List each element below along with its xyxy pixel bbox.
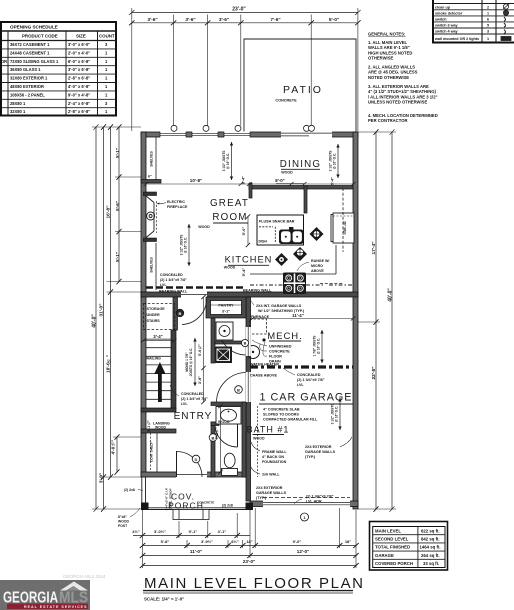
svg-text:PATIO: PATIO <box>283 84 323 96</box>
garage door opening <box>263 500 350 507</box>
svg-text:9'-0": 9'-0" <box>293 539 302 544</box>
porch posts <box>141 503 149 511</box>
svg-text:3'-9½": 3'-9½" <box>201 539 213 544</box>
dining dim 8'-0" <box>275 178 304 184</box>
dim 5'-1" / 5'-6" / 5'-1" left inner <box>115 124 122 284</box>
svg-text:(2) 1 3/4"x9 7/8": (2) 1 3/4"x9 7/8" <box>160 278 187 282</box>
extension lines bottom <box>143 508 357 568</box>
dim 3'-4" stairs <box>141 334 177 343</box>
svg-text:3'-8": 3'-8" <box>198 376 202 384</box>
svg-text:5'-0⅝": 5'-0⅝" <box>198 344 202 356</box>
svg-text:MICRO: MICRO <box>311 264 323 268</box>
svg-text:842 sq ft.: 842 sq ft. <box>421 537 440 542</box>
entry dim line <box>218 404 222 474</box>
kitchen bearing dashed <box>250 284 283 286</box>
mech door arc <box>219 328 247 356</box>
svg-text:GEORGIA MLS 2024: GEORGIA MLS 2024 <box>63 574 106 579</box>
dim row 1 bottom <box>132 529 250 538</box>
electric fireplace <box>143 192 156 242</box>
svg-text:OTHERWISE: OTHERWISE <box>368 56 393 61</box>
svg-text:OR: OR <box>1 59 7 64</box>
svg-text:3 1/2" JOISTS: 3 1/2" JOISTS <box>331 404 335 425</box>
svg-text:@ 16" O.C.: @ 16" O.C. <box>317 338 321 355</box>
svg-text:4" CONCRETE SLAB: 4" CONCRETE SLAB <box>263 408 300 412</box>
svg-text:(2) 2x8: (2) 2x8 <box>222 504 233 508</box>
svg-text:(2) 1 3/4"x9 7/8": (2) 1 3/4"x9 7/8" <box>181 397 208 401</box>
storage under stairs dashed box <box>144 304 175 330</box>
svg-text:CONCEALED: CONCEALED <box>297 373 321 377</box>
front door opening <box>176 471 207 477</box>
svg-text:OPENING SCHEDULE: OPENING SCHEDULE <box>10 25 58 30</box>
mech door opening <box>246 327 251 356</box>
front door tag <box>192 455 200 463</box>
opening schedule row lines <box>1 49 116 108</box>
svg-text:23'-0": 23'-0" <box>243 559 255 564</box>
svg-text:clean up: clean up <box>435 5 451 9</box>
svg-text:6'-0" x 6'-8": 6'-0" x 6'-8" <box>68 59 90 64</box>
svg-text:2x6 WALL: 2x6 WALL <box>262 473 280 477</box>
svg-text:1 CAR GARAGE: 1 CAR GARAGE <box>260 392 353 404</box>
garage label <box>260 392 353 404</box>
frame wall note <box>262 450 287 464</box>
title: MAIN LEVEL FLOOR PLAN <box>143 575 365 602</box>
svg-text:5'-8": 5'-8" <box>161 539 170 544</box>
dim 40'-0" left overall <box>92 124 99 512</box>
svg-text:DINING: DINING <box>280 159 322 170</box>
hall east wall (laundry column) <box>211 318 215 363</box>
svg-text:3'-4": 3'-4" <box>153 334 162 339</box>
svg-text:SCALE: 1/4" = 1'-0": SCALE: 1/4" = 1'-0" <box>144 597 184 602</box>
electrical legend table (top right, cut off) <box>433 0 514 43</box>
svg-text:40'-0": 40'-0" <box>388 288 394 302</box>
dim row 3 bottom <box>140 549 359 558</box>
flush snack bar counter <box>257 215 304 245</box>
joist note stairs <box>185 338 197 386</box>
svg-text:8½": 8½" <box>231 539 239 544</box>
svg-text:5'-4": 5'-4" <box>241 268 246 277</box>
svg-text:32X80 1: 32X80 1 <box>10 109 26 114</box>
svg-text:PRODUCT CODE: PRODUCT CODE <box>22 34 58 39</box>
svg-text:72X80 SLIDING GLASS 1: 72X80 SLIDING GLASS 1 <box>10 59 59 64</box>
svg-text:2X4 INT. GARAGE WALLS: 2X4 INT. GARAGE WALLS <box>256 304 302 308</box>
bath east wall <box>242 402 246 477</box>
svg-text:RANGE W/: RANGE W/ <box>311 259 329 263</box>
svg-text:CONCEALED: CONCEALED <box>160 273 183 277</box>
mech dim 11'-4" <box>250 313 355 321</box>
svg-text:3'-0" x 6'-0": 3'-0" x 6'-0" <box>68 42 90 47</box>
svg-text:11'-4": 11'-4" <box>292 313 304 318</box>
svg-text:4'-0" x 6'-8": 4'-0" x 6'-8" <box>68 84 90 89</box>
bearing wall labels <box>159 289 272 294</box>
2x6 wall note <box>262 473 280 477</box>
svg-text:8"x8": 8"x8" <box>118 515 127 519</box>
svg-text:9'-0" x 4'-8": 9'-0" x 4'-8" <box>68 92 90 97</box>
upper shelves closet <box>155 137 157 180</box>
concrete stoop <box>173 510 209 520</box>
vanity alcove top wall <box>211 402 246 406</box>
chase above label <box>250 374 277 378</box>
dining label <box>280 159 322 175</box>
floor drain <box>262 338 265 341</box>
bath label <box>247 425 290 441</box>
svg-text:40'-0": 40'-0" <box>92 314 98 328</box>
svg-text:LVL: LVL <box>297 383 304 387</box>
svg-text:(2) 1 3/4"x9 7/8": (2) 1 3/4"x9 7/8" <box>306 495 334 499</box>
svg-text:WOOD: WOOD <box>224 266 236 270</box>
joist note great room mid <box>180 224 191 266</box>
svg-text:FLOOR: FLOOR <box>269 355 282 359</box>
range label <box>311 259 329 273</box>
svg-text:8'-4": 8'-4" <box>242 176 246 184</box>
svg-text:3'-6": 3'-6" <box>147 17 157 23</box>
svg-text:3 1/2" JOISTS: 3 1/2" JOISTS <box>222 151 226 172</box>
joist note mech <box>313 330 324 363</box>
svg-text:2'-4" x 6'-8": 2'-4" x 6'-8" <box>68 101 90 106</box>
svg-text:28X80 1: 28X80 1 <box>10 101 26 106</box>
svg-text:8'-0": 8'-0" <box>275 178 284 183</box>
svg-text:(TYP.): (TYP.) <box>256 496 267 500</box>
svg-text:UNDER: UNDER <box>147 313 160 317</box>
great room label <box>198 198 249 229</box>
svg-text:W/ 1/2" SHEATHING (TYP.): W/ 1/2" SHEATHING (TYP.) <box>258 309 305 313</box>
mid bearing/garage wall <box>141 292 358 297</box>
svg-text:1: 1 <box>487 37 489 41</box>
svg-text:MONO 1 7/8": MONO 1 7/8" <box>185 352 189 372</box>
svg-text:FIREPLACE: FIREPLACE <box>167 205 188 209</box>
refrigerator <box>331 213 354 243</box>
storage east wall <box>173 297 178 330</box>
opening schedule table frame <box>1 22 116 116</box>
svg-text:smoke detector: smoke detector <box>435 11 463 15</box>
svg-text:switch 4 way: switch 4 way <box>435 30 458 34</box>
svg-text:NOTED OTHERWISE: NOTED OTHERWISE <box>368 75 409 80</box>
opening schedule text <box>1 25 115 115</box>
light symbol over sink <box>293 247 307 261</box>
svg-text:3'-1": 3'-1" <box>222 310 230 314</box>
svg-text:3'-0" x 6'-8": 3'-0" x 6'-8" <box>68 67 90 72</box>
svg-text:RAILING: RAILING <box>147 357 162 361</box>
svg-text:@ 16" O.C.: @ 16" O.C. <box>184 237 188 254</box>
toilet <box>222 453 238 475</box>
svg-text:2'-8" x 6'-8": 2'-8" x 6'-8" <box>68 109 90 114</box>
svg-text:7'-6": 7'-6" <box>270 17 280 23</box>
post label <box>118 515 129 528</box>
svg-text:5'-1": 5'-1" <box>189 529 198 534</box>
svg-text:SIZE: SIZE <box>76 34 86 39</box>
svg-text:6: 6 <box>487 17 489 21</box>
electrical legend symbols <box>501 4 511 41</box>
ext garage walls label right <box>305 445 336 459</box>
svg-text:ROOM: ROOM <box>212 212 247 223</box>
pantry walls <box>206 297 246 318</box>
extension lines right <box>358 132 396 509</box>
svg-text:(TYP.): (TYP.) <box>305 455 316 459</box>
dim 40'-0" right overall <box>388 129 395 512</box>
svg-text:WOOD: WOOD <box>198 225 210 229</box>
hall dim line <box>201 295 205 404</box>
garage door header dashed <box>263 497 350 499</box>
svg-text:1 7/8" JOISTS: 1 7/8" JOISTS <box>313 336 317 357</box>
svg-text:MAIN LEVEL FLOOR PLAN: MAIN LEVEL FLOOR PLAN <box>144 575 365 592</box>
watermark text <box>63 574 106 579</box>
patio label <box>275 84 323 103</box>
svg-text:WATER HEATER: WATER HEATER <box>250 363 279 367</box>
svg-text:B: B <box>244 342 247 346</box>
svg-text:WOOD: WOOD <box>281 171 293 175</box>
dining/kitchen divider wall <box>249 186 353 190</box>
svg-text:SHELVES: SHELVES <box>150 256 154 272</box>
dim row top segments <box>129 17 361 26</box>
general notes block <box>368 32 438 124</box>
window tag circles <box>171 125 315 131</box>
water heater label <box>250 363 279 367</box>
west exterior wall <box>141 132 146 477</box>
svg-text:GARAGE: GARAGE <box>375 553 394 558</box>
svg-text:PANTRY: PANTRY <box>218 304 234 308</box>
svg-text:5: 5 <box>487 24 489 28</box>
dim 4'-0 1/2" left lower <box>111 434 120 475</box>
svg-text:CHASE ABOVE: CHASE ABOVE <box>250 374 277 378</box>
stair treads <box>146 339 171 399</box>
kitchen dim 5'-4" vertical <box>241 268 246 277</box>
bath door head wall stub <box>211 422 219 426</box>
svg-text:ELECTRIC: ELECTRIC <box>167 200 185 204</box>
svg-text:3'-6": 3'-6" <box>219 17 229 23</box>
svg-text:48X80 EXTERIOR: 48X80 EXTERIOR <box>10 84 44 89</box>
door opening in mid wall <box>181 291 207 297</box>
svg-text:2: 2 <box>487 5 489 9</box>
window openings in north wall <box>160 131 332 137</box>
svg-text:1464 sq ft.: 1464 sq ft. <box>420 545 441 550</box>
svg-text:3 1/2" JOISTS: 3 1/2" JOISTS <box>329 151 333 172</box>
svg-text:1: 1 <box>487 11 489 15</box>
svg-text:GARAGE WALLS: GARAGE WALLS <box>256 491 287 495</box>
kitchen west stub wall <box>249 183 252 198</box>
lower shelves closet <box>155 243 157 290</box>
svg-text:4" BACK ON: 4" BACK ON <box>262 455 284 459</box>
svg-text:33 sq ft.: 33 sq ft. <box>423 561 439 566</box>
svg-text:GENERAL NOTES:: GENERAL NOTES: <box>368 32 405 37</box>
svg-text:wall mounted OR 2 lights: wall mounted OR 2 lights <box>434 37 479 41</box>
stair side wall hatched <box>171 330 176 409</box>
square footage table (bottom right) <box>370 522 448 571</box>
bath door tag <box>209 434 217 442</box>
washer box <box>216 322 233 340</box>
ceiling fan symbol <box>310 227 324 241</box>
svg-text:SHELVES: SHELVES <box>150 150 154 166</box>
svg-text:D: D <box>195 457 198 462</box>
svg-text:5'-1": 5'-1" <box>115 148 120 158</box>
svg-text:622 sq ft.: 622 sq ft. <box>421 528 440 533</box>
front door arc <box>177 452 203 478</box>
range <box>283 273 306 295</box>
light symbol kitchen <box>275 253 288 266</box>
south wall of house (entry/bath) <box>141 472 250 477</box>
kitchen dim 5'-0" vertical <box>241 214 250 247</box>
svg-text:18": 18" <box>246 539 252 544</box>
dim row 4 bottom 23'-0" <box>140 559 359 568</box>
garage door tag <box>301 513 309 521</box>
kitchen sink <box>279 227 304 244</box>
kitchen counter edges <box>250 188 344 284</box>
svg-text:COMPACTED GRANULAR FILL: COMPACTED GRANULAR FILL <box>263 418 318 422</box>
garage side wall (porch east / mech west) <box>246 297 251 501</box>
landing/closet wall <box>141 429 176 433</box>
svg-text:264 sq ft.: 264 sq ft. <box>421 553 440 558</box>
svg-text:LVL: LVL <box>181 402 188 406</box>
svg-text:COVERED PORCH: COVERED PORCH <box>375 561 413 566</box>
patio slab outline <box>244 39 356 132</box>
svg-text:CONCRETE: CONCRETE <box>197 501 214 505</box>
svg-text:MAIN LEVEL: MAIN LEVEL <box>375 528 401 533</box>
svg-text:2X4 EXTERIOR: 2X4 EXTERIOR <box>256 486 283 490</box>
svg-text:TOTAL FINISHED: TOTAL FINISHED <box>375 545 410 550</box>
svg-text:5'-1": 5'-1" <box>115 252 120 262</box>
svg-text:WOOD: WOOD <box>118 520 129 524</box>
north exterior wall <box>141 132 358 137</box>
east exterior wall <box>353 132 358 509</box>
svg-text:5'-0": 5'-0" <box>241 227 246 236</box>
vanity with sink <box>216 407 241 425</box>
svg-text:ENTRY: ENTRY <box>174 411 213 422</box>
svg-text:B: B <box>237 387 240 392</box>
great room dim row <box>144 176 249 186</box>
storage door tag <box>176 309 184 317</box>
shower pan dark square <box>215 347 233 364</box>
svg-text:SECOND LEVEL: SECOND LEVEL <box>375 537 409 542</box>
extension lines from top dims <box>132 8 358 131</box>
dim 17'-4" / 22'-8" right <box>371 129 379 512</box>
hall dims rotated <box>147 344 219 439</box>
svg-text:3'-1": 3'-1" <box>218 529 227 534</box>
svg-text:STAIRS: STAIRS <box>147 319 161 323</box>
svg-text:23'-0": 23'-0" <box>232 7 246 13</box>
svg-text:WOOD: WOOD <box>253 437 265 441</box>
svg-text:B: B <box>212 435 215 440</box>
concealed lvl great room <box>160 273 187 287</box>
ext garage walls label bottom <box>256 486 287 500</box>
svg-text:SLOPED TO DOORS: SLOPED TO DOORS <box>263 413 299 417</box>
foundation dashed line right of bath <box>257 406 259 477</box>
lvl header label <box>306 495 334 504</box>
svg-text:ABOVE: ABOVE <box>311 269 324 273</box>
storage door arc <box>182 299 207 325</box>
kitchen label <box>224 255 273 270</box>
svg-text:5'-4": 5'-4" <box>331 177 335 185</box>
water heater <box>247 346 260 359</box>
stoop rotated note <box>165 488 173 511</box>
svg-text:BATH #1: BATH #1 <box>247 425 290 435</box>
dim 16'-8" / 18'-0 1/2" left <box>106 124 114 480</box>
landing label <box>153 422 170 430</box>
svg-text:REAL ESTATE SERVICES: REAL ESTATE SERVICES <box>24 605 87 609</box>
(2) 2x8 labels <box>124 488 233 508</box>
entry label <box>174 411 230 424</box>
concealed lvl label mech <box>297 373 325 387</box>
extension lines left <box>92 127 141 509</box>
joist note great room top <box>222 142 233 180</box>
svg-text:2'-8" x 6'-8": 2'-8" x 6'-8" <box>68 76 90 81</box>
svg-text:(2) 1 3/4"x9 7/8": (2) 1 3/4"x9 7/8" <box>297 378 325 382</box>
svg-text:MECH.: MECH. <box>267 331 303 342</box>
joist note garage <box>331 398 342 430</box>
svg-text:PER CONTRACTOR: PER CONTRACTOR <box>368 118 407 123</box>
svg-text:GARAGE WALLS: GARAGE WALLS <box>305 450 336 454</box>
svg-text:4'-0½": 4'-0½" <box>111 440 116 455</box>
bath west wall <box>211 422 215 477</box>
svg-text:2'-0" x 4'-0": 2'-0" x 4'-0" <box>68 50 90 55</box>
bath door leaf and arc <box>237 424 239 447</box>
dim 31'-0" / 3'-0" left <box>99 124 107 512</box>
pantry label <box>218 304 234 314</box>
railing label <box>147 357 162 361</box>
svg-text:WOOD: WOOD <box>155 426 166 430</box>
hall door tag <box>235 386 243 394</box>
svg-text:STORAGE: STORAGE <box>147 307 166 311</box>
svg-text:B: B <box>179 311 182 316</box>
svg-text:CONCEALED: CONCEALED <box>181 392 204 396</box>
svg-text:3: 3 <box>487 30 489 34</box>
svg-text:@ 16" O.C.: @ 16" O.C. <box>226 153 230 170</box>
svg-text:CONCRETE: CONCRETE <box>269 350 290 354</box>
svg-text:@ 16" O.C.: @ 16" O.C. <box>335 406 339 423</box>
svg-text:COUNT: COUNT <box>99 34 115 39</box>
fireplace label <box>167 200 188 209</box>
svg-text:36X80 GLASS 1: 36X80 GLASS 1 <box>10 67 41 72</box>
kitchen nook wall <box>304 186 307 213</box>
svg-text:6": 6" <box>148 175 152 179</box>
svg-text:24X48 CASEMENT 1: 24X48 CASEMENT 1 <box>10 50 50 55</box>
svg-text:4½": 4½" <box>132 529 140 534</box>
svg-text:KITCHEN: KITCHEN <box>225 255 273 265</box>
svg-text:18": 18" <box>345 539 351 544</box>
svg-text:FOUNDATION: FOUNDATION <box>262 460 287 464</box>
svg-text:2X4 EXTERIOR: 2X4 EXTERIOR <box>305 445 332 449</box>
mech label <box>267 331 303 342</box>
svg-text:JOISTS @ 16" O.C.: JOISTS @ 16" O.C. <box>189 348 193 377</box>
svg-text:LVL: LVL <box>160 283 167 287</box>
svg-text:3'-6": 3'-6" <box>185 17 195 23</box>
svg-text:switch: switch <box>435 17 447 21</box>
mech tag <box>241 339 248 346</box>
dim row 2 bottom <box>140 539 359 548</box>
concealed lvl entry <box>181 392 208 406</box>
dim 23'-0" overall top <box>129 7 361 16</box>
svg-text:LVL HDR: LVL HDR <box>306 500 322 504</box>
garage front wall <box>250 501 358 507</box>
svg-text:@ 16" O.C.: @ 16" O.C. <box>333 153 337 170</box>
kitchen top dim row <box>247 177 356 186</box>
svg-text:108X56 - 2 PANEL: 108X56 - 2 PANEL <box>10 92 45 97</box>
svg-text:COAT SHELF: COAT SHELF <box>150 442 154 462</box>
svg-text:5'-6": 5'-6" <box>115 201 120 211</box>
svg-text:FLUSH SNACK BAR: FLUSH SNACK BAR <box>259 220 295 224</box>
svg-text:BEARING WALL: BEARING WALL <box>159 290 188 294</box>
svg-text:DISH: DISH <box>259 240 268 244</box>
front door leaf <box>176 451 178 477</box>
Georgia MLS logo <box>0 580 90 610</box>
svg-text:WOOD: WOOD <box>218 420 230 424</box>
svg-text:11'-0": 11'-0" <box>190 549 202 554</box>
hall-garage door arc <box>217 373 247 403</box>
svg-text:10'-8": 10'-8" <box>190 178 202 183</box>
entry closet shelf <box>156 433 158 472</box>
concealed beam dashed mech/garage <box>250 365 353 368</box>
svg-text:3 1/2" JOISTS: 3 1/2" JOISTS <box>180 235 184 256</box>
stair bottom wall <box>141 408 176 412</box>
porch label <box>168 492 214 511</box>
svg-text:(2) 2x8: (2) 2x8 <box>124 488 135 492</box>
